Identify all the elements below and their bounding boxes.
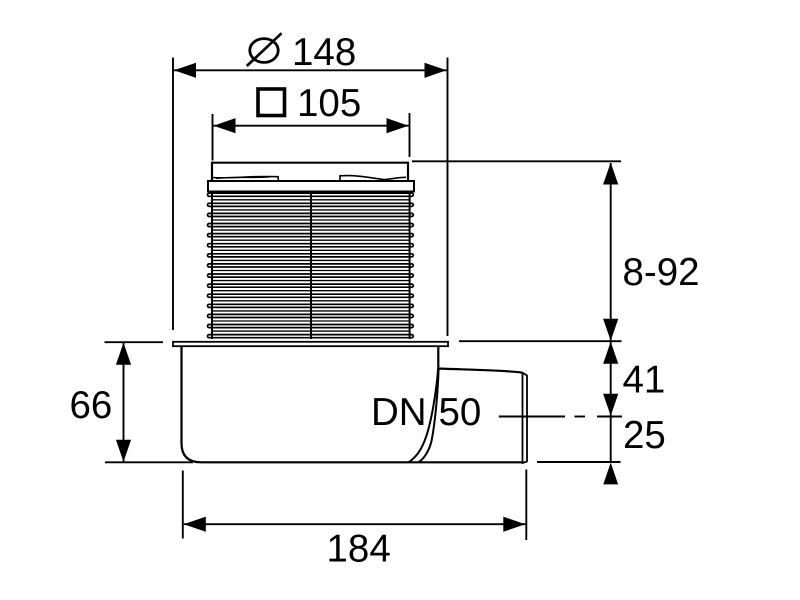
dim 66 line xyxy=(123,343,125,462)
body right edge xyxy=(437,346,439,367)
dim 105 right arrow xyxy=(387,118,409,133)
centerline dash xyxy=(575,416,586,418)
dim 66 bottom arrow xyxy=(116,440,131,462)
top edge extension line to 8-92 xyxy=(412,160,621,162)
outlet pipe end face xyxy=(523,373,528,463)
dim 184 left extension xyxy=(182,471,184,539)
rib band 12 xyxy=(208,304,414,307)
rib groove line 2 xyxy=(212,209,410,211)
rib groove line 13 xyxy=(212,320,410,322)
dim 105 left extension xyxy=(212,114,214,161)
svg-text:50: 50 xyxy=(439,391,482,434)
grate seat wavy line xyxy=(213,176,406,181)
dim Ø148 right arrow xyxy=(425,63,447,78)
rib groove line 3 xyxy=(212,219,410,221)
rib groove line 11 xyxy=(212,300,410,302)
dim 8-92 bottom arrow xyxy=(603,319,618,341)
dim 184 line xyxy=(184,523,526,525)
dim 105 left arrow xyxy=(214,118,236,133)
svg-text:25: 25 xyxy=(623,414,666,457)
svg-text:105: 105 xyxy=(297,82,361,125)
rib band 11 xyxy=(208,294,414,297)
body left and bottom xyxy=(182,346,522,462)
svg-text:8-92: 8-92 xyxy=(623,251,700,294)
svg-text:66: 66 xyxy=(70,384,113,427)
dim 8-92 top arrow xyxy=(603,163,618,185)
rib center seam xyxy=(310,192,312,339)
dim 184 left arrow xyxy=(184,517,206,532)
svg-text:DN: DN xyxy=(371,391,427,434)
rib groove line 7 xyxy=(212,259,410,261)
grate seat wavy line double xyxy=(216,177,270,179)
dim 66 top arrow xyxy=(116,343,131,365)
grate frame top cap xyxy=(212,163,408,181)
rib band 8 xyxy=(208,264,414,267)
collar band xyxy=(208,181,414,192)
rib band 6 xyxy=(208,244,414,247)
flange level extension line xyxy=(459,340,622,342)
rib groove line 10 xyxy=(212,290,410,292)
rib band 1 xyxy=(208,193,414,196)
dim 66 top extension xyxy=(105,341,164,343)
rib band 4 xyxy=(208,224,414,227)
outlet S-curve outer xyxy=(409,367,439,463)
rib band 9 xyxy=(208,274,414,277)
rib band 15 xyxy=(208,335,414,338)
flange xyxy=(173,342,448,346)
centerline solid segment xyxy=(499,416,565,418)
dim 8-92 line xyxy=(610,163,612,341)
rib groove line 1 xyxy=(212,199,410,201)
rib right edge xyxy=(409,192,411,340)
svg-text:148: 148 xyxy=(292,31,356,74)
label square symbol xyxy=(258,89,285,116)
rib groove line 6 xyxy=(212,249,410,251)
rib band 13 xyxy=(208,314,414,317)
rib band 10 xyxy=(208,284,414,287)
dim 41 top arrow xyxy=(603,342,618,364)
dim 105 right extension xyxy=(409,113,411,157)
dim 41 bottom arrow xyxy=(603,394,618,416)
outlet pipe top edge xyxy=(438,369,522,373)
rib band 2 xyxy=(208,203,414,206)
dim 184 right arrow xyxy=(503,517,525,532)
rib groove line 5 xyxy=(212,239,410,241)
rib left edge xyxy=(211,192,213,340)
rib band 14 xyxy=(208,325,414,328)
dim Ø148 line xyxy=(174,69,447,71)
rib band 5 xyxy=(208,234,414,237)
rib band 7 xyxy=(208,254,414,257)
rib groove line 4 xyxy=(212,229,410,231)
rib groove line 14 xyxy=(212,330,410,332)
svg-text:41: 41 xyxy=(623,358,666,401)
dim 25 bottom arrow xyxy=(603,463,618,485)
dim 25 line xyxy=(610,416,612,462)
dim Ø148 left extension xyxy=(172,58,174,331)
svg-text:184: 184 xyxy=(327,528,391,571)
dim Ø148 right extension xyxy=(447,58,449,337)
dim 41 line xyxy=(610,341,612,416)
telescopic ribbed section xyxy=(208,193,414,338)
dim 66 bottom extension xyxy=(105,461,193,463)
dim 184 right extension xyxy=(525,470,527,541)
label Ø slash xyxy=(247,33,282,66)
rib groove line 12 xyxy=(212,310,410,312)
rib groove line 9 xyxy=(212,280,410,282)
centerline tick across dim xyxy=(597,416,622,418)
outlet S-curve inner xyxy=(419,368,439,463)
pipe bottom extension line xyxy=(537,461,621,463)
label Ø circle xyxy=(250,39,278,63)
rib groove line 8 xyxy=(212,270,410,272)
dim Ø148 left arrow xyxy=(174,63,196,78)
dim 105 line xyxy=(214,125,409,127)
rib band 3 xyxy=(208,213,414,216)
